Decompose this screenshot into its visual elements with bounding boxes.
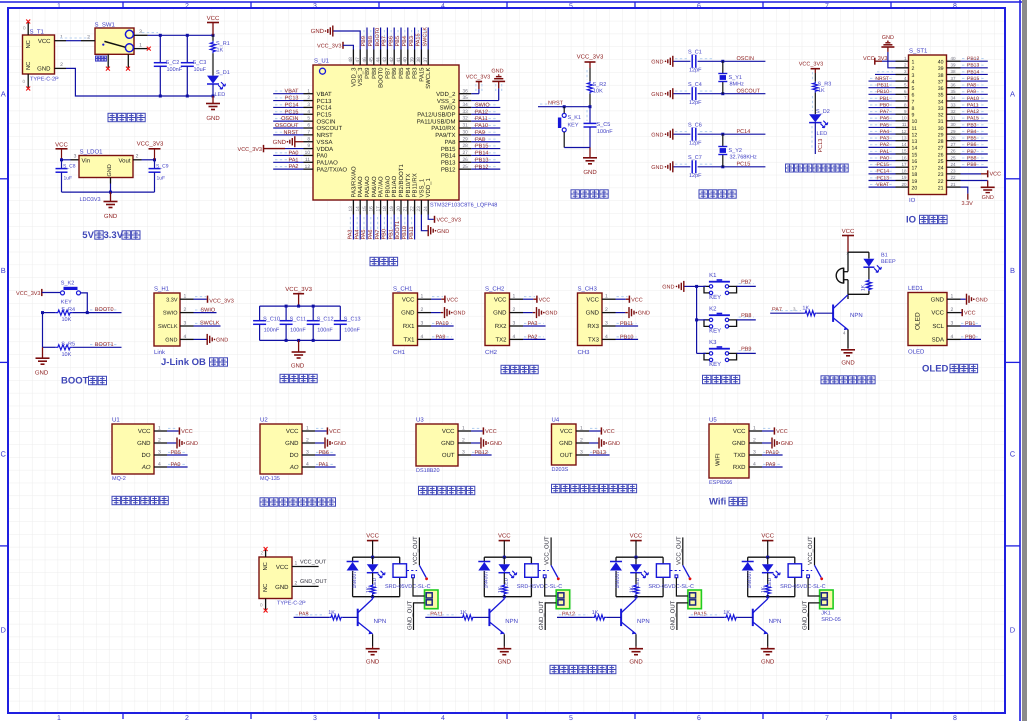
svg-text:2: 2: [260, 551, 263, 556]
svg-text:GND: GND: [976, 297, 988, 303]
svg-text:PB4: PB4: [405, 67, 412, 79]
svg-text:S_U1: S_U1: [314, 58, 330, 65]
svg-text:30: 30: [938, 126, 944, 132]
terminal wires (PA11): [538, 578, 556, 630]
svg-text:VBAT: VBAT: [285, 89, 300, 95]
svg-text:OSCIN: OSCIN: [317, 118, 336, 125]
svg-text:PA4: PA4: [880, 129, 889, 135]
wire SW1 pin3 to VCC rail: [142, 33, 215, 98]
svg-text:GND: GND: [334, 441, 346, 447]
LED (alarm): [863, 259, 881, 273]
ground flag GND (U1 VSS_3 pin 47): [311, 26, 361, 50]
power flag VCC_3V3 (reset): [577, 54, 604, 69]
svg-text:VCC: VCC: [38, 38, 51, 45]
relay switch contact (PA12): [670, 536, 691, 580]
svg-text:LED: LED: [215, 92, 226, 98]
svg-text:GND: GND: [311, 28, 325, 35]
wire / net label PA15 with 1K: [689, 610, 753, 620]
svg-text:S_R2: S_R2: [593, 82, 607, 88]
svg-text:4: 4: [441, 3, 445, 10]
svg-text:24: 24: [938, 166, 944, 172]
wire / net label PB11 (ST1 pin 5): [869, 83, 896, 89]
svg-text:GND: GND: [491, 69, 503, 75]
wire / net label NRST (ST1 pin 4): [869, 76, 896, 82]
wire / net label PB1 (ST1 pin 7): [869, 96, 896, 102]
svg-text:GND: GND: [453, 311, 465, 317]
svg-text:S_CH3: S_CH3: [578, 286, 598, 293]
ST1 pin numbers and stubs: [896, 56, 961, 192]
ground flag GND (crystal S_C6): [651, 129, 673, 140]
svg-text:OSCIN: OSCIN: [281, 116, 298, 122]
svg-text:1N4007: 1N4007: [747, 571, 753, 589]
flyback diode 1N4007 (PA12): [610, 562, 622, 589]
svg-text:6: 6: [697, 715, 701, 721]
wire / net label PB10 (CH3): [616, 334, 639, 340]
svg-text:PA2/TX/AO: PA2/TX/AO: [317, 166, 348, 173]
title 人体热释电感应模块: [552, 484, 560, 492]
svg-text:PC15: PC15: [317, 111, 333, 118]
svg-text:VCC_3V3: VCC_3V3: [437, 218, 461, 224]
module U2 MQ-135: [260, 417, 302, 483]
svg-text:VCC: VCC: [485, 429, 497, 435]
svg-text:38: 38: [938, 73, 944, 79]
svg-text:PB10: PB10: [620, 334, 633, 340]
wire / net label PA0 (ST1 pin 16): [869, 155, 896, 161]
wire / net label PA2 (ST1 pin 14): [869, 142, 896, 148]
svg-text:PA6/AO: PA6/AO: [371, 176, 378, 198]
svg-text:Vout: Vout: [118, 157, 130, 164]
svg-text:S_C7: S_C7: [688, 155, 702, 161]
svg-text:4: 4: [912, 79, 915, 85]
ground GND (reset): [583, 148, 597, 177]
resistor S_R2 10K: [587, 68, 606, 107]
relay coil SRD-05VDC-SL-C (PA11): [517, 564, 563, 590]
svg-text:MQ-2: MQ-2: [112, 476, 126, 482]
wire / net label PA1 (U2): [315, 462, 336, 468]
svg-text:20: 20: [901, 182, 907, 187]
power flag VCC (U1): [167, 427, 193, 435]
CH1 pin 1 VCC: [402, 294, 431, 304]
wire / net label PB5 (ST1 pin 28): [961, 136, 988, 142]
svg-text:AO: AO: [289, 464, 299, 471]
svg-text:S_H1: S_H1: [154, 286, 170, 293]
svg-text:2: 2: [185, 3, 189, 10]
svg-text:1K: 1K: [761, 586, 767, 593]
pushbutton S_K2 KEY: [61, 281, 81, 306]
svg-text:OSCOUT: OSCOUT: [275, 123, 299, 129]
svg-text:VCC: VCC: [442, 428, 455, 435]
LED (relay PA11): [499, 557, 517, 587]
wire / net label PC13 (ST1 pin 19): [869, 175, 896, 181]
svg-text:PA9/TX: PA9/TX: [435, 132, 455, 139]
capacitor S_C4 12pF: [674, 82, 766, 106]
title 5V转3.3V电路: [82, 230, 140, 241]
svg-text:5: 5: [569, 3, 573, 10]
svg-text:VSS_3: VSS_3: [357, 67, 364, 86]
ground GND (relay PA15): [761, 634, 775, 665]
wire / net label OSCOUT (U1 pin 6): [273, 123, 303, 129]
title 按键电路: [703, 375, 711, 383]
svg-text:GND: GND: [651, 92, 663, 98]
wire / net label PA10 (CH1): [431, 321, 454, 327]
wire / net label PB1 (U1 pin 19): [388, 215, 394, 240]
power flag VCC (alarm): [842, 228, 855, 252]
svg-text:GND: GND: [559, 440, 573, 447]
svg-text:PB4: PB4: [402, 36, 408, 46]
svg-text:VCC_OUT: VCC_OUT: [544, 536, 551, 565]
wire / net label PB5 (U1): [167, 450, 188, 456]
svg-text:33: 33: [951, 102, 957, 107]
svg-text:PA15: PA15: [967, 116, 979, 122]
title 滤波电路: [280, 374, 288, 382]
svg-text:1K: 1K: [629, 586, 635, 593]
connector S_CH1: [393, 286, 418, 357]
svg-text:RX1: RX1: [403, 323, 415, 330]
svg-text:BOOT1: BOOT1: [95, 342, 114, 348]
svg-text:VCC_3V3: VCC_3V3: [209, 298, 233, 304]
wire / net label PA15 (ST1 pin 31): [961, 116, 988, 122]
wire / net label PA3 (U1 pin 13): [348, 215, 354, 240]
ground flag GND (crystal S_C7): [651, 161, 673, 172]
wire / net label PA2 (CH2): [523, 334, 546, 340]
module U3 DS18B20: [416, 417, 458, 475]
resistor S_R1 1K: [210, 35, 229, 75]
svg-text:20: 20: [912, 185, 918, 191]
wire / net label PA10 (ST1 pin 34): [961, 96, 988, 102]
svg-text:GND: GND: [493, 310, 507, 317]
svg-text:PB12: PB12: [967, 56, 979, 62]
svg-text:SWCLK: SWCLK: [422, 27, 428, 47]
svg-text:3: 3: [912, 73, 915, 79]
svg-text:PB13: PB13: [593, 450, 606, 456]
svg-text:VDD_1: VDD_1: [425, 177, 432, 197]
svg-text:PA0: PA0: [317, 153, 329, 160]
svg-text:VCC: VCC: [586, 296, 599, 303]
svg-text:GND: GND: [498, 659, 512, 666]
svg-text:40: 40: [951, 56, 957, 61]
wire / net label PA9 (U5): [762, 462, 783, 468]
svg-text:PB5: PB5: [395, 36, 401, 46]
resistor 1K (relay LED PA11): [497, 573, 507, 597]
capacitor S_C2 100nF: [154, 35, 183, 96]
power flag VCC (ST1 pin 23): [961, 170, 1002, 177]
svg-text:100nF: 100nF: [290, 328, 306, 334]
power flag VCC (relay PA12): [630, 533, 643, 558]
CH2 pin 2 GND: [493, 307, 523, 317]
svg-text:PA1: PA1: [289, 157, 299, 163]
svg-text:23: 23: [951, 169, 957, 174]
switch S_SW1: [81, 22, 151, 71]
svg-text:K3: K3: [709, 339, 717, 346]
title 程序运行指示灯: [786, 164, 794, 172]
svg-text:1K: 1K: [818, 88, 825, 94]
ground GND (LDO): [104, 192, 118, 220]
svg-text:S_C5: S_C5: [597, 122, 611, 128]
ground flag GND (crystal S_C4): [651, 88, 673, 99]
svg-text:B: B: [1, 266, 6, 275]
svg-text:2: 2: [185, 715, 189, 721]
svg-text:VDD_3: VDD_3: [350, 67, 357, 87]
svg-text:0: 0: [260, 603, 263, 608]
U1 left pin names and numbers: [304, 88, 348, 173]
CH3 pin 4 TX3: [588, 334, 616, 344]
wire / net label PA11 (ST1 pin 33): [961, 102, 988, 108]
capacitor S_C1 12pF: [674, 50, 766, 74]
svg-text:MQ-135: MQ-135: [260, 476, 280, 482]
wire / net label VBAT (U1 pin 1): [273, 89, 303, 95]
svg-text:D: D: [0, 626, 6, 635]
svg-text:3: 3: [313, 3, 317, 10]
svg-text:VDD_2: VDD_2: [436, 91, 456, 98]
svg-text:S_LDO1: S_LDO1: [80, 149, 104, 156]
svg-text:GND: GND: [273, 139, 287, 146]
svg-text:S_SW1: S_SW1: [95, 22, 116, 29]
wire / net label GND_OUT (T2): [292, 579, 328, 586]
svg-text:VSS_2: VSS_2: [437, 98, 456, 105]
LED1 pin 3 SCL: [932, 321, 960, 331]
svg-text:1K: 1K: [497, 586, 503, 593]
svg-text:GND: GND: [982, 195, 994, 201]
LED (relay PA8): [367, 557, 385, 587]
ground flag GND (ST1 pin 2): [881, 35, 895, 68]
svg-text:SRD-05VDC-SL-C: SRD-05VDC-SL-C: [385, 584, 431, 590]
relay coil SRD-05VDC-SL-C (PA8): [385, 564, 431, 590]
svg-text:GND: GND: [35, 370, 49, 377]
svg-text:PB14: PB14: [441, 153, 456, 160]
svg-text:GND_OUT: GND_OUT: [300, 579, 328, 585]
capacitor S_C11 100nF: [280, 306, 307, 340]
svg-text:VCC_3V3: VCC_3V3: [238, 147, 262, 153]
svg-text:3: 3: [74, 154, 77, 160]
transistor NPN (relay PA12): [621, 597, 650, 635]
svg-text:PB6: PB6: [319, 450, 329, 456]
wire / net label BOOT0 (U1 pin 44): [375, 28, 381, 50]
wire / net label PA8 (ST1 pin 36): [961, 83, 988, 89]
svg-text:PB15: PB15: [441, 146, 456, 153]
relay rails (PA15): [748, 556, 795, 599]
svg-text:35: 35: [938, 93, 944, 99]
svg-text:S_R1: S_R1: [216, 41, 230, 47]
wire Vout to VCC_3V3: [142, 158, 157, 161]
svg-text:GND: GND: [662, 285, 674, 291]
wire / net label PB4 (U1 pin 40): [402, 28, 408, 50]
regulator S_LDO1 LDO3V3: [79, 149, 142, 204]
svg-text:PA4/AO: PA4/AO: [357, 176, 364, 198]
svg-text:PB14: PB14: [475, 151, 488, 157]
svg-text:S_C3: S_C3: [193, 60, 207, 66]
svg-text:11: 11: [902, 122, 907, 127]
power flag VCC (OLED): [961, 309, 976, 317]
svg-text:GND: GND: [275, 584, 289, 591]
svg-text:CH3: CH3: [578, 349, 591, 356]
wire / net label PA11 with 1K: [425, 610, 489, 620]
capacitor S_C5 100nF: [584, 107, 614, 148]
wire / net label PB15 (ST1 pin 37): [961, 76, 988, 82]
svg-text:VCC: VCC: [402, 296, 415, 303]
svg-text:VSSA: VSSA: [317, 139, 333, 146]
svg-text:KEY: KEY: [709, 328, 721, 335]
capacitor S_C12 100nF: [307, 306, 334, 340]
wire / net label PA9 (U1 pin 30): [471, 130, 500, 136]
alarm bottom wires: [848, 280, 869, 299]
svg-text:33: 33: [938, 106, 944, 112]
svg-text:GND: GND: [608, 441, 620, 447]
svg-text:PC15: PC15: [737, 162, 751, 168]
ground GND (relay PA12): [629, 634, 643, 665]
svg-text:S_C6: S_C6: [688, 122, 702, 128]
svg-text:KEY: KEY: [709, 294, 721, 301]
svg-text:PA10: PA10: [475, 123, 488, 129]
U1 top pin names and numbers: [348, 50, 432, 89]
svg-text:PB11: PB11: [620, 321, 633, 327]
svg-text:16: 16: [912, 159, 918, 165]
transistor NPN (alarm): [833, 295, 863, 330]
resistor 1K (relay LED PA8): [366, 573, 376, 597]
svg-text:VCC_OUT: VCC_OUT: [675, 536, 682, 565]
svg-text:OLED: OLED: [915, 312, 922, 330]
svg-text:OSCOUT: OSCOUT: [317, 125, 343, 132]
connector T2 TYPE-C-2P (output): [259, 547, 306, 613]
power flag VCC (U4): [589, 427, 615, 435]
wire / net label PA12 (ST1 pin 32): [961, 109, 988, 115]
LED1 pin 2 VCC: [931, 307, 960, 317]
svg-text:PB15: PB15: [967, 76, 979, 82]
svg-text:VBAT: VBAT: [876, 182, 889, 188]
svg-text:VCC_OUT: VCC_OUT: [807, 536, 814, 565]
connector S_H1 J-Link: [154, 286, 180, 357]
title 复位电路: [571, 190, 579, 198]
LED S_D2: [809, 109, 830, 137]
svg-text:VCC: VCC: [55, 141, 68, 148]
svg-text:SRD-05VDC-SL-C: SRD-05VDC-SL-C: [780, 584, 826, 590]
svg-text:VCC: VCC: [366, 533, 379, 540]
wire / net label PA0 (U1 pin 10): [273, 150, 303, 156]
svg-text:28: 28: [938, 139, 944, 145]
title J-Link OB接口: [161, 357, 228, 368]
svg-text:PA9: PA9: [436, 334, 446, 340]
title 电源电路: [108, 113, 116, 121]
svg-text:PA6: PA6: [368, 230, 374, 240]
svg-text:PB0: PB0: [382, 229, 388, 239]
svg-text:S_C2: S_C2: [166, 60, 180, 66]
wire / net label PB5 (U1 pin 41): [395, 28, 401, 50]
terminal block (PA8): [425, 590, 439, 609]
power flag VCC_3V3 (filter): [285, 286, 312, 306]
svg-text:GND_OUT: GND_OUT: [801, 600, 808, 630]
svg-text:PA7/AO: PA7/AO: [378, 176, 385, 198]
wire to Vin: [62, 154, 80, 160]
svg-text:5: 5: [912, 86, 915, 92]
svg-text:S_C10: S_C10: [263, 316, 280, 322]
svg-text:10K: 10K: [62, 352, 72, 358]
svg-text:PB1/AO: PB1/AO: [391, 175, 398, 197]
svg-text:PC15: PC15: [876, 162, 889, 168]
terminal block (PA15): [820, 590, 834, 609]
svg-text:PA11: PA11: [967, 102, 979, 108]
U5 pin 3 TXD: [734, 450, 763, 460]
svg-text:VCC_3V3: VCC_3V3: [799, 61, 823, 67]
svg-text:S_C11: S_C11: [290, 316, 306, 322]
wire / net label PA9 (CH1): [431, 334, 454, 340]
power flag VCC (top of R1): [207, 15, 220, 35]
svg-text:0: 0: [22, 79, 25, 84]
svg-text:PB10/TX: PB10/TX: [405, 173, 412, 197]
svg-text:PB8: PB8: [371, 67, 378, 79]
svg-text:PC13: PC13: [285, 96, 299, 102]
svg-text:5: 5: [569, 715, 573, 721]
svg-text:VCC: VCC: [539, 297, 551, 303]
svg-text:PB10: PB10: [877, 89, 889, 95]
svg-text:PB11/RX: PB11/RX: [412, 173, 419, 197]
wire / net label PA10 (U5): [762, 450, 783, 456]
wire / net label PB12 (ST1 pin 40): [961, 56, 988, 62]
power flag VCC (CH2): [523, 296, 550, 304]
svg-text:34: 34: [951, 96, 957, 101]
wire / net label PA3 (ST1 pin 13): [869, 136, 896, 142]
ground GND (alarm): [841, 350, 855, 367]
svg-text:PB8: PB8: [967, 155, 977, 161]
title 主芯片: [370, 257, 378, 265]
wire / net label PB7 (ST1 pin 26): [961, 149, 988, 155]
wire / net label PB6 (U1 pin 42): [388, 28, 394, 50]
svg-text:PB11: PB11: [877, 83, 889, 89]
terminal block (PA11): [556, 590, 570, 609]
svg-text:PA7: PA7: [375, 230, 381, 240]
wire / net label PA11 (U1 pin 32): [471, 116, 500, 122]
svg-text:A: A: [1010, 90, 1015, 99]
svg-text:39: 39: [938, 66, 944, 72]
svg-text:GND: GND: [37, 66, 51, 73]
svg-text:19: 19: [901, 175, 907, 180]
relay rails (PA11): [484, 556, 531, 599]
svg-text:PA2: PA2: [528, 334, 538, 340]
svg-text:NPN: NPN: [769, 618, 782, 625]
svg-text:TYPE-C-2P: TYPE-C-2P: [277, 601, 306, 607]
wire / net label SWCLK (U1 pin 37): [422, 27, 428, 50]
svg-text:17: 17: [901, 162, 907, 167]
wire / net label PA5 (ST1 pin 11): [869, 122, 896, 128]
svg-text:37: 37: [951, 76, 957, 81]
U3 pin 3 OUT: [442, 450, 471, 460]
U2 pin 1 VCC: [286, 426, 315, 436]
svg-text:C: C: [0, 450, 6, 459]
svg-text:TX1: TX1: [403, 337, 415, 344]
wire / net label PC13 (U1 pin 2): [273, 96, 303, 102]
svg-text:PA4: PA4: [354, 230, 360, 240]
svg-text:PB0: PB0: [965, 334, 975, 340]
resistor S_R5 10K: [43, 341, 122, 357]
svg-text:GND: GND: [931, 296, 945, 303]
svg-text:VCC: VCC: [560, 428, 573, 435]
flyback diode 1N4007 (PA11): [478, 562, 490, 589]
wire / net label PA9 (ST1 pin 35): [961, 89, 988, 95]
svg-text:1N4007: 1N4007: [615, 571, 621, 589]
svg-text:S_C12: S_C12: [317, 316, 334, 322]
svg-text:14: 14: [901, 142, 907, 147]
svg-text:SWCLK: SWCLK: [200, 321, 220, 327]
svg-text:1K: 1K: [217, 48, 224, 54]
power flag VCC_3V3 (H1): [194, 296, 234, 305]
U5 pin 4 RXD: [733, 462, 762, 472]
wire / net label PA5 (U1 pin 15): [361, 215, 367, 240]
svg-text:GND: GND: [638, 311, 650, 317]
wire / net label PA4 (ST1 pin 12): [869, 129, 896, 135]
ground rail wire: [62, 191, 155, 194]
svg-text:K2: K2: [709, 305, 717, 312]
svg-text:S_ST1: S_ST1: [909, 48, 928, 55]
U2 pin 3 DO: [290, 450, 316, 460]
CH1 pin 4 TX1: [403, 334, 431, 344]
